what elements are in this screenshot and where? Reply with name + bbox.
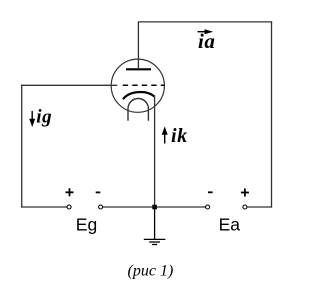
terminal Ea plus xyxy=(243,205,247,209)
cathode xyxy=(123,92,155,99)
right wire xyxy=(271,21,273,207)
polarity plus Ea xyxy=(241,189,249,197)
polarity plus Eg xyxy=(66,188,74,196)
triode V1 envelope xyxy=(111,59,164,112)
current arrow ig xyxy=(29,111,35,127)
terminal Eg plus xyxy=(67,205,71,209)
polarity minus Ea xyxy=(208,191,213,193)
heater filament xyxy=(128,99,148,121)
wire bottom left xyxy=(21,206,67,208)
svg-text:Ea: Ea xyxy=(219,215,241,235)
anode lead wire xyxy=(137,22,139,69)
wire Eg to Ea xyxy=(103,206,206,208)
svg-text:ig: ig xyxy=(36,106,52,127)
grid lead wire xyxy=(21,84,117,86)
cathode lead wire xyxy=(154,96,156,207)
ground xyxy=(144,207,166,245)
svg-text:(рис 1): (рис 1) xyxy=(128,262,174,279)
svg-text:ia: ia xyxy=(198,29,216,53)
left wire xyxy=(21,85,23,208)
terminal Ea minus xyxy=(206,205,210,209)
terminal Eg minus xyxy=(99,205,103,209)
anode plate xyxy=(126,68,151,70)
svg-text:Eg: Eg xyxy=(76,215,97,235)
grid (dashed) xyxy=(123,84,165,86)
node K junction xyxy=(152,205,157,210)
wire bottom right xyxy=(247,206,272,208)
current arrow ia xyxy=(198,29,214,34)
polarity minus Eg xyxy=(96,191,101,193)
svg-text:ik: ik xyxy=(171,125,188,147)
current arrow ik xyxy=(162,126,168,143)
top wire xyxy=(138,21,272,23)
